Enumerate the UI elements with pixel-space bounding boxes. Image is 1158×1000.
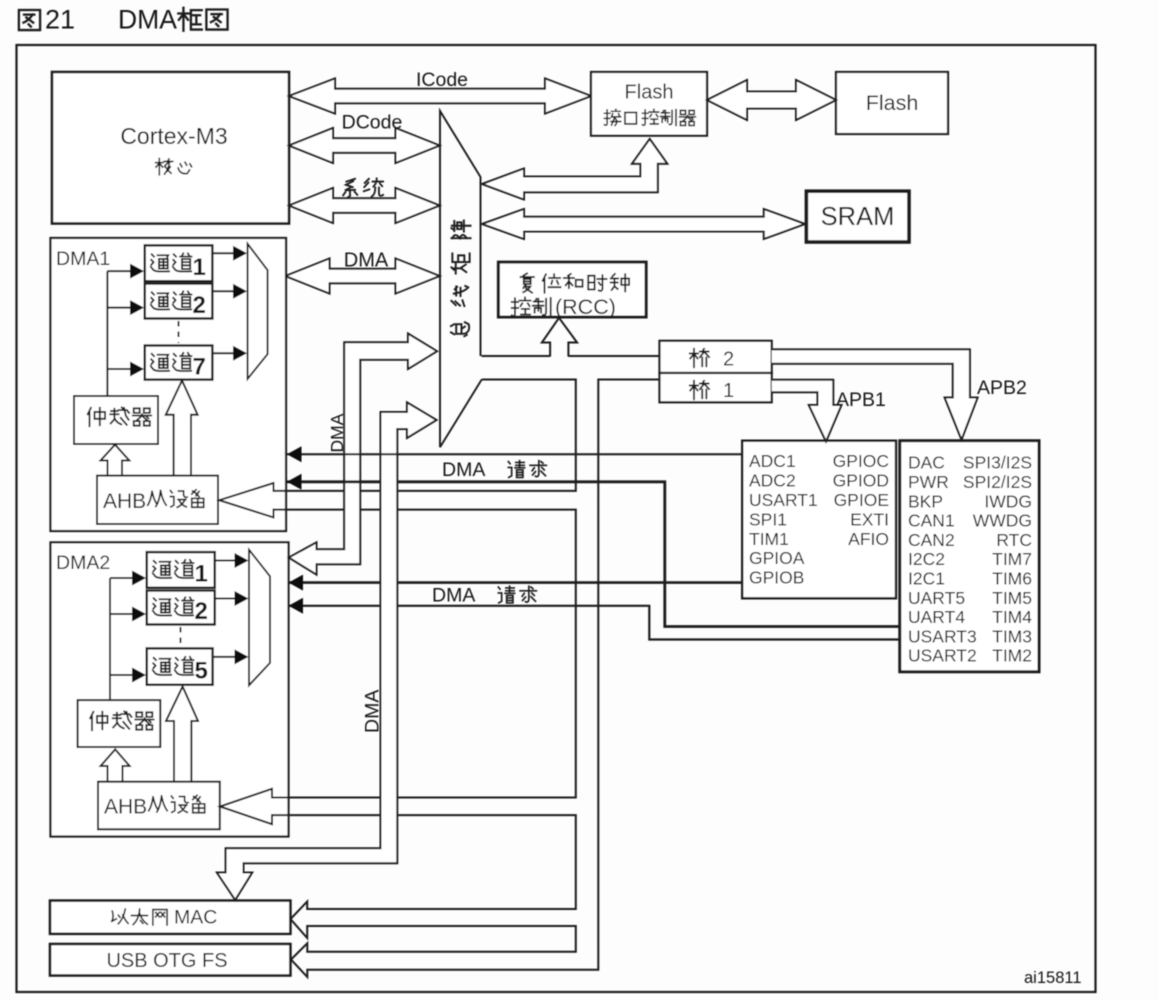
- arrowhead 通道2 to funnel: [233, 284, 247, 299]
- svg-text:2: 2: [723, 349, 734, 371]
- arrowhead 通道2 to funnel2: [235, 591, 249, 606]
- svg-text:SRAM: SRAM: [821, 203, 895, 231]
- box Cortex-M3 core: [52, 72, 289, 224]
- svg-text:DMA: DMA: [362, 690, 384, 733]
- svg-text:DMA: DMA: [118, 5, 177, 35]
- arrowhead 通道5 to funnel2: [235, 649, 249, 664]
- svg-text:21: 21: [45, 5, 75, 35]
- svg-text:TIM1: TIM1: [749, 529, 789, 549]
- pipe Ethernet MAC master to bus matrix: [217, 402, 437, 900]
- arrowhead into 通道2 (DMA1): [130, 300, 144, 315]
- box 以太网 MAC (Ethernet MAC): [50, 901, 290, 934]
- label 系统: [343, 179, 357, 198]
- svg-text:TIM4: TIM4: [992, 607, 1032, 627]
- svg-text:DMA1: DMA1: [56, 248, 110, 270]
- svg-text:5: 5: [195, 658, 208, 685]
- svg-text:DMA: DMA: [442, 459, 485, 481]
- wire arbiter riser DMA2: [110, 578, 133, 700]
- svg-text:I2C1: I2C1: [908, 569, 945, 589]
- box 通道1 (DMA2): [147, 552, 215, 588]
- bus arrow Flash interface to Flash: [707, 80, 836, 120]
- svg-text:ADC1: ADC1: [749, 451, 796, 471]
- funnel DMA2 channels mux: [249, 550, 270, 686]
- svg-text:UART4: UART4: [908, 607, 965, 627]
- svg-text:TIM3: TIM3: [992, 626, 1032, 646]
- pipe matrix to SRAM: [482, 209, 805, 239]
- box 通道1 (DMA1): [145, 245, 213, 281]
- wire DMA request 3 (to DMA2): [289, 581, 743, 584]
- box RCC 复位和时钟控制: [498, 262, 646, 317]
- svg-text:DMA: DMA: [344, 250, 389, 272]
- box 仲裁器 (DMA1): [74, 396, 158, 444]
- bus arrow ICode: [289, 79, 591, 114]
- svg-text:EXTI: EXTI: [850, 509, 889, 529]
- box 通道2 (DMA1): [145, 284, 213, 319]
- box SRAM: [806, 191, 909, 242]
- svg-text:DMA: DMA: [327, 413, 347, 452]
- svg-text:APB1: APB1: [836, 389, 886, 411]
- svg-text:ADC2: ADC2: [749, 471, 796, 491]
- svg-text:TIM7: TIM7: [992, 549, 1032, 569]
- box AHB从设备 (DMA1): [97, 476, 218, 524]
- svg-text:IWDG: IWDG: [984, 491, 1032, 511]
- arrowhead into 通道1 (DMA2): [132, 571, 146, 586]
- svg-text:USB OTG FS: USB OTG FS: [106, 950, 227, 972]
- label 通道5: [153, 658, 171, 675]
- box APB1 peripherals list: [742, 441, 896, 599]
- wire DMA request 4 (to DMA2): [289, 606, 900, 640]
- svg-text:GPIOC: GPIOC: [833, 451, 889, 471]
- svg-text:PWR: PWR: [908, 472, 949, 492]
- box AHB从设备 (DMA2): [98, 782, 220, 830]
- arrowhead 通道1 to funnel: [233, 246, 247, 261]
- dashed link 通道2 to 通道5: [180, 627, 182, 646]
- box 通道7 (DMA1): [145, 346, 213, 380]
- wire DMA request 1 overdraw across ethernet pipe: [381, 453, 398, 455]
- svg-text:TIM2: TIM2: [992, 646, 1032, 666]
- svg-text:AFIO: AFIO: [848, 529, 889, 549]
- label 复位和时钟: [521, 273, 534, 292]
- arrowhead into 通道5 (DMA2): [132, 668, 146, 683]
- svg-text:CAN1: CAN1: [908, 511, 955, 531]
- box 通道2 (DMA2): [147, 591, 215, 625]
- svg-text:WWDG: WWDG: [973, 511, 1032, 531]
- box 通道5 (DMA2): [147, 648, 213, 684]
- svg-text:USART3: USART3: [908, 626, 977, 646]
- box APB2 peripherals list: [900, 441, 1039, 672]
- arrowhead DMA request 2: [287, 474, 302, 490]
- svg-text:7: 7: [193, 354, 206, 381]
- arrow AHB slave to channels (DMA1): [166, 381, 198, 476]
- bus arrow 系统: [289, 188, 440, 223]
- arrowhead 通道7 to funnel: [233, 346, 247, 361]
- svg-text:SPI2/I2S: SPI2/I2S: [963, 472, 1032, 492]
- svg-text:GPIOB: GPIOB: [749, 568, 804, 588]
- wire DMA request 2 (to DMA1): [287, 482, 900, 627]
- arrow AHB slave to arbiter (DMA1): [101, 445, 130, 475]
- svg-text:1: 1: [723, 380, 734, 402]
- wire 通道1 output (DMA2): [215, 560, 235, 562]
- wire 通道1 output (DMA1): [212, 252, 233, 254]
- arrowhead into 通道1 (DMA1): [130, 264, 144, 279]
- wire DMA request 1 (to DMA1): [287, 453, 742, 455]
- arrowhead 通道1 to funnel2: [235, 553, 249, 568]
- bus arrow DCode: [289, 128, 440, 163]
- box DMA2 controller: [51, 542, 289, 836]
- svg-text:UART5: UART5: [908, 588, 965, 608]
- pipe 桥2 to APB2 peripherals: [772, 349, 978, 439]
- pipe DMA2 master port to bus matrix: [289, 334, 437, 575]
- wire 通道5 output (DMA2): [213, 656, 235, 658]
- svg-text:APB2: APB2: [977, 377, 1027, 399]
- svg-text:USART1: USART1: [749, 490, 818, 510]
- label 以太网 MAC: [112, 909, 128, 924]
- label 通道2: [151, 292, 169, 309]
- label 接口控制器: [604, 109, 620, 125]
- svg-text:DMA: DMA: [432, 585, 475, 607]
- svg-text:(RCC): (RCC): [555, 295, 616, 319]
- svg-text:TIM5: TIM5: [992, 588, 1032, 608]
- label 桥 2: [690, 349, 709, 367]
- pipe 桥1 to APB1 peripherals: [772, 380, 842, 442]
- svg-text:DAC: DAC: [908, 453, 945, 473]
- svg-text:ICode: ICode: [416, 69, 468, 91]
- pipe matrix to Flash interface controller: [482, 139, 667, 200]
- bus pipe top line matrix to 桥2: [482, 355, 660, 357]
- arrow AHB slave to arbiter (DMA2): [101, 749, 130, 781]
- svg-text:USART2: USART2: [908, 646, 977, 666]
- wire arbiter riser DMA1: [107, 271, 131, 396]
- label 通道1 DMA2: [153, 561, 171, 578]
- label 通道7: [151, 354, 169, 371]
- box 仲裁器 (DMA2): [78, 700, 161, 747]
- box Flash interface controller: [591, 72, 707, 136]
- wire 通道2 output (DMA2): [215, 598, 235, 600]
- label 通道1: [151, 254, 169, 271]
- svg-text:I2C2: I2C2: [908, 549, 945, 569]
- svg-text:SPI3/I2S: SPI3/I2S: [963, 453, 1032, 473]
- box Flash memory: [836, 72, 948, 134]
- svg-text:RTC: RTC: [996, 530, 1032, 550]
- svg-text:CAN2: CAN2: [908, 530, 955, 550]
- svg-text:GPIOE: GPIOE: [834, 490, 889, 510]
- title text 图21 DMA框图: [19, 10, 40, 30]
- arrow bus to RCC: [542, 318, 577, 357]
- svg-text:ai15811: ai15811: [1024, 969, 1082, 987]
- svg-text:Cortex-M3: Cortex-M3: [120, 123, 227, 149]
- arrowhead DMA request 1: [287, 446, 302, 462]
- svg-text:GPIOD: GPIOD: [833, 471, 889, 491]
- label 仲裁器: [88, 408, 105, 426]
- svg-text:Flash: Flash: [625, 82, 674, 104]
- svg-text:SPI1: SPI1: [749, 509, 787, 529]
- svg-text:2: 2: [195, 598, 208, 625]
- label 核心: [156, 159, 173, 175]
- label 仲裁器 DMA2: [90, 712, 107, 730]
- svg-text:GPIOA: GPIOA: [749, 548, 805, 568]
- svg-text:DMA2: DMA2: [56, 552, 110, 574]
- svg-text:Flash: Flash: [866, 91, 919, 115]
- wire 通道2 output (DMA1): [212, 290, 233, 292]
- wire 通道7 output (DMA1): [212, 352, 233, 354]
- box 桥1 (bridge 1): [660, 373, 772, 402]
- bus pipe down-pipe with branches to DMA1/DMA2/MAC/USB and 桥1: [219, 380, 659, 978]
- label 总线矩阵 (rotated): [451, 322, 469, 336]
- svg-text:AHB: AHB: [104, 796, 147, 819]
- label 桥 1: [690, 381, 709, 399]
- dashed link 通道2 to 通道7: [178, 321, 180, 343]
- bus arrow DMA (DMA1 master): [286, 259, 440, 294]
- label 控制: [512, 297, 531, 316]
- svg-text:AHB: AHB: [103, 490, 146, 513]
- funnel DMA1 channels mux: [248, 244, 268, 379]
- box DMA1 controller: [51, 238, 287, 531]
- svg-text:TIM6: TIM6: [992, 569, 1032, 589]
- bus matrix trapezoid: [440, 111, 482, 447]
- arrow AHB slave to channels (DMA2): [166, 687, 198, 782]
- svg-text:1: 1: [195, 561, 208, 588]
- svg-text:MAC: MAC: [174, 907, 217, 929]
- arrowhead into 通道7 (DMA1): [130, 362, 144, 377]
- arrowhead DMA request 4: [289, 598, 304, 614]
- svg-text:1: 1: [193, 254, 206, 281]
- arrowhead into 通道2 (DMA2): [132, 607, 146, 622]
- box 桥2 (bridge 2): [660, 341, 772, 373]
- svg-text:2: 2: [193, 292, 206, 319]
- svg-text:DCode: DCode: [342, 112, 403, 134]
- label 通道2 DMA2: [153, 598, 171, 615]
- box USB OTG FS: [50, 944, 290, 976]
- arrowhead DMA request 3: [289, 575, 304, 591]
- svg-text:BKP: BKP: [908, 491, 943, 511]
